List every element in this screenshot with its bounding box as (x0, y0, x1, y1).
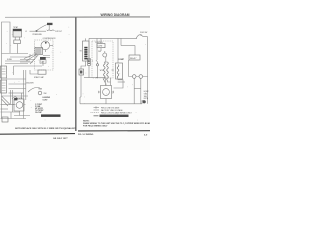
label CUTOUT (55, 31, 62, 33)
svg-text:FIG. 5-2 WIRING: FIG. 5-2 WIRING (78, 134, 94, 136)
wire comp feed a (105, 78, 107, 86)
wire left vert (13, 66, 15, 75)
wire bottom b (1, 108, 9, 110)
wire riser small (10, 112, 12, 119)
svg-text:FUSE: FUSE (7, 59, 13, 61)
encl inner wires (43, 56, 50, 58)
svg-text:EQUIP: EQUIP (144, 91, 149, 93)
wire PL2 riser (133, 78, 135, 104)
svg-text:SW: SW (44, 93, 47, 95)
bus bar mid (84, 77, 106, 79)
fuse F1 box (88, 59, 91, 66)
wire K1 bottom (97, 66, 99, 78)
label XFMR (112, 70, 115, 72)
wire tb down (80, 75, 81, 97)
label HTR (100, 70, 104, 72)
pilot wire (129, 76, 148, 78)
control box label (98, 46, 103, 48)
bottom rail (80, 103, 142, 105)
svg-text:FIELD LOW VOLTAGE WIRING ONLY: FIELD LOW VOLTAGE WIRING ONLY (101, 111, 133, 114)
comp label right column (118, 59, 125, 61)
thermostat leg 1 (14, 37, 16, 40)
wire PL3 riser (140, 78, 142, 104)
unit dashed enclosure (92, 41, 113, 78)
heater coil H1b (107, 62, 109, 80)
disconnect contact dot (140, 34, 141, 35)
wire bus a (6, 78, 26, 80)
right rail (147, 37, 149, 104)
end cap component (142, 101, 145, 104)
svg-text:TB: TB (80, 51, 82, 53)
transformer box (116, 63, 123, 79)
compressor motor circle (41, 41, 50, 50)
compressor dashed enclosure (35, 40, 54, 70)
pilot light PL2 (132, 75, 136, 79)
legend right line 3 symbol (91, 112, 100, 114)
svg-text:L1: L1 (25, 31, 27, 33)
wire circle to relay (45, 45, 53, 52)
legend right dark bar (100, 115, 129, 117)
wire to start cap (30, 70, 38, 74)
svg-text:COMP: COMP (118, 59, 125, 61)
wire relay drop (30, 53, 36, 58)
wire relay to pilots (128, 60, 130, 77)
wire bottom rail (1, 118, 27, 120)
relay hatch stripes (36, 49, 42, 53)
fan switch circle (38, 91, 42, 95)
legend bar lead symbol (94, 115, 99, 117)
riser 2 (25, 70, 27, 100)
subbase box (14, 40, 20, 44)
label TB strip (80, 51, 82, 53)
fan switch label (44, 93, 47, 95)
crossbar 45 (121, 45, 135, 47)
wire bus d (9, 92, 25, 94)
terminal board lugs (84, 47, 87, 60)
switch contact marks (47, 30, 55, 31)
wire strip to rail (85, 38, 87, 41)
top rule (50, 16, 150, 18)
scan speckle noise (5, 27, 146, 125)
relay label (130, 57, 137, 60)
junction box 2 (1, 80, 7, 93)
svg-text:GE JULY 1977: GE JULY 1977 (53, 138, 68, 140)
legend left dark bar (41, 114, 61, 117)
pilot riser crossbar (134, 88, 141, 90)
wire CB down (101, 48, 105, 53)
start cap label (34, 76, 45, 79)
control box outline (2, 22, 11, 119)
motor dark dot (45, 42, 47, 44)
svg-text:NOTE:: NOTE: (83, 120, 90, 122)
fan motor label (15, 97, 24, 100)
svg-text:COMPRESSOR: COMPRESSOR (43, 38, 57, 40)
thermostat hatching (14, 32, 20, 38)
relay fanout wires (24, 55, 39, 64)
coil top bar (104, 57, 107, 62)
wire vert 21.5 (21, 93, 23, 99)
disconnect label (140, 32, 148, 34)
control box CB (97, 44, 105, 48)
svg-text:CONT: CONT (98, 46, 103, 48)
tb small box (79, 69, 84, 75)
wire comp bottom (105, 100, 107, 104)
run capacitor dark box (40, 57, 46, 60)
legend right line 1 symbol (94, 106, 100, 108)
svg-text:SEE: SEE (144, 96, 147, 98)
wire L1 horizontal (2, 53, 29, 55)
right side label stack (144, 91, 149, 100)
wire cap drop (42, 62, 44, 66)
svg-text:RELAY: RELAY (130, 57, 137, 60)
fan sym circle (103, 53, 107, 57)
end dark blob (143, 100, 146, 103)
wire L3 horizontal (5, 60, 30, 62)
svg-text:CUTOUT: CUTOUT (55, 31, 62, 33)
wire loop above fan (12, 97, 17, 99)
label fuse (7, 59, 13, 61)
wire bus b (9, 83, 27, 85)
contact K1 terminal (96, 64, 98, 66)
wire L4 horizontal (14, 65, 43, 67)
fan motor dark corner (14, 98, 17, 100)
riser 1 (23, 70, 25, 119)
top rule left faint segment (5, 16, 50, 18)
svg-text:230/208V: 230/208V (26, 82, 34, 84)
contact K1 (96, 38, 98, 63)
wire below fan box (14, 113, 30, 116)
wire F1 bottom (88, 66, 90, 78)
thermostat TH body (13, 29, 22, 37)
svg-text:CA CAP: CA CAP (35, 111, 43, 114)
compressor label (43, 38, 57, 40)
coil bottom leads (104, 80, 110, 82)
transformer coil (117, 65, 119, 79)
thermostat dark cap (13, 29, 22, 31)
svg-text:WIRING DIAGRAM: WIRING DIAGRAM (101, 13, 130, 17)
capacitor outline box (40, 60, 46, 63)
thermostat leg 2 (19, 37, 21, 40)
start cap box (38, 70, 46, 74)
wire relay top (134, 46, 136, 56)
relay box right (129, 55, 140, 60)
crossbar 82 (118, 81, 125, 83)
svg-text:FOR FIELD WIRING ONLY: FOR FIELD WIRING ONLY (83, 126, 108, 128)
label contact (92, 61, 94, 63)
svg-text:START CAP: START CAP (34, 76, 45, 79)
wire xfmr top (117, 38, 119, 63)
column divider (75, 17, 77, 131)
label under CONT (98, 51, 102, 53)
junction box 1 text (2, 69, 6, 74)
compressor box (101, 86, 112, 99)
wire vert 10.5 (10, 90, 12, 105)
bottom rule left (0, 133, 75, 136)
wire strip down to tb (81, 61, 86, 69)
switch terminal dot (36, 30, 37, 31)
heater coil H1a (104, 62, 106, 80)
wire bottom c (1, 111, 21, 113)
compressor circle CMP (103, 89, 110, 96)
fan motor terminal marks (13, 105, 26, 114)
wire rail to CB (100, 38, 102, 43)
bottom rule right (78, 130, 150, 132)
switch lead label (25, 31, 27, 33)
compressor terminal marks (98, 84, 114, 101)
fan motor circle FM (16, 102, 23, 109)
fuse F1 bands (88, 60, 90, 64)
wire subbase down (16, 44, 18, 54)
disconnect switch jog (136, 35, 148, 39)
legend right line 2 symbol (94, 109, 100, 111)
wire L3b horizontal (5, 63, 28, 65)
svg-text:NOTE: NOTE (144, 98, 148, 100)
high pressure switch contact block (47, 23, 53, 25)
terminal board outline (83, 41, 90, 61)
wire F1 top (88, 38, 90, 58)
wire xfmr bottom (114, 79, 124, 88)
TB box mark (80, 71, 82, 74)
svg-text:DISC SW: DISC SW (140, 32, 148, 34)
left rail lower (79, 97, 81, 104)
wire bottom a (1, 104, 16, 106)
extra mesh wires (20, 60, 35, 63)
wire bus c (9, 88, 27, 90)
start relay box (35, 47, 42, 54)
plug box (2, 117, 8, 122)
label below switch (33, 34, 43, 36)
wire comp feed b (110, 78, 112, 86)
high pressure switch baseline (30, 30, 47, 32)
wire diag mesh (2, 96, 11, 106)
fan label (39, 88, 43, 91)
page background (0, 0, 150, 150)
top rail (89, 37, 137, 39)
fan motor box (14, 99, 24, 111)
pilot light PL3 (139, 75, 143, 79)
capacitor label (41, 61, 45, 64)
junction box 2 text (2, 83, 6, 91)
svg-text:PRESSURE: PRESSURE (33, 34, 43, 36)
wire bus y96 (2, 95, 28, 97)
junction box 1 (1, 66, 7, 78)
thermostat TH label (13, 26, 18, 29)
fan lead arc (28, 88, 40, 93)
junction dot mid (96, 77, 97, 78)
wire vert 12.5 (12, 90, 14, 112)
svg-text:REPLACE ONLY WITH 90 C WIRE OR: REPLACE ONLY WITH 90 C WIRE OR ITS EQUIV… (22, 127, 77, 130)
wire L2 horizontal (10, 56, 30, 58)
wire 121 drop (120, 38, 122, 45)
block drop wire (48, 25, 50, 29)
control box label above (95, 42, 103, 44)
high pressure switch arm (36, 25, 47, 31)
cap symbol text (26, 82, 34, 84)
